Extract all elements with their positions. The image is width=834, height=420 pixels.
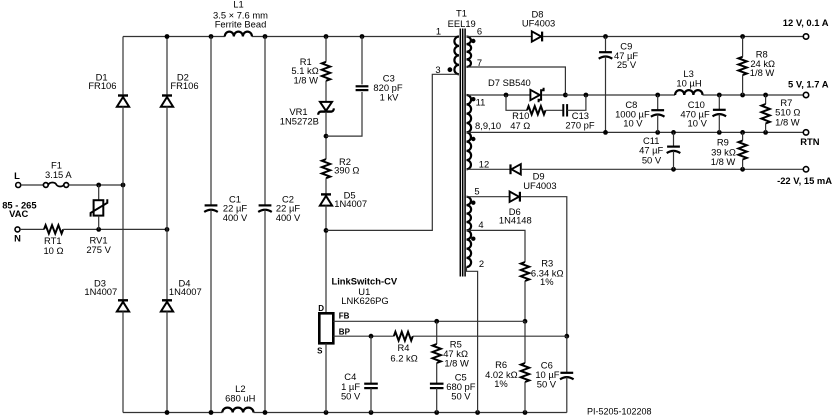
svg-text:L1: L1 — [233, 0, 243, 9]
svg-text:11: 11 — [476, 97, 486, 108]
junction C3 return — [324, 134, 329, 139]
wire pin2 down — [467, 267, 478, 413]
transformer T1 primary winding — [454, 37, 459, 75]
svg-text:5 V, 1.7 A: 5 V, 1.7 A — [788, 79, 829, 90]
junction RV1 bottom — [96, 227, 101, 232]
wire C9 top — [605, 37, 607, 53]
junction L-D1 column — [121, 183, 126, 188]
wire D7 to rail — [542, 94, 565, 96]
zener VR1 — [320, 102, 332, 111]
junction bottom rail U1 S — [324, 410, 329, 415]
svg-text:FR106: FR106 — [170, 80, 198, 91]
svg-text:1/8 W: 1/8 W — [444, 358, 469, 369]
wire C11 top — [673, 132, 675, 146]
junction bottom rail C5 — [434, 410, 439, 415]
svg-text:10 V: 10 V — [623, 118, 643, 129]
svg-text:6: 6 — [477, 26, 482, 37]
wire VR1 to junction — [325, 112, 327, 159]
junction pin3 return — [324, 228, 329, 233]
junction bottom rail C2 — [263, 410, 268, 415]
svg-text:47 Ω: 47 Ω — [510, 120, 530, 131]
transformer T1 core — [459, 29, 461, 277]
junction -22V R9 — [740, 167, 745, 172]
wire C13 to riser — [567, 95, 586, 110]
svg-text:6.2 kΩ: 6.2 kΩ — [390, 353, 417, 364]
wire R9 bottom — [742, 160, 744, 170]
svg-text:LinkSwitch-CV: LinkSwitch-CV — [331, 276, 397, 287]
svg-text:RTN: RTN — [800, 136, 819, 147]
polarity dot winding 8910-12 — [471, 137, 475, 141]
wire R6 bottom — [524, 382, 526, 413]
wire R9 top — [742, 132, 744, 140]
wire C1 bottom — [210, 210, 212, 413]
wire R1 to VR1 — [325, 81, 327, 103]
wire R1 top — [325, 37, 327, 62]
wire C10 top — [718, 95, 720, 110]
inductor L3 — [675, 90, 702, 95]
wire 12V rail — [543, 36, 803, 38]
wire R5 top — [436, 321, 438, 344]
wire -22V rail — [521, 168, 803, 170]
diode D3 — [118, 299, 128, 301]
wire R6 top — [524, 321, 526, 363]
diode D8 — [532, 31, 541, 41]
transformer T1 winding 11-8910 — [467, 95, 472, 132]
svg-text:25 V: 25 V — [617, 59, 637, 70]
svg-text:4: 4 — [478, 219, 483, 230]
svg-text:FB: FB — [339, 311, 350, 320]
junction R7 top — [763, 93, 768, 98]
wire D2 column — [166, 37, 168, 95]
svg-text:1N4007: 1N4007 — [169, 286, 202, 297]
junction RTN C8 bottom — [655, 130, 660, 135]
wire C8 top — [657, 95, 659, 110]
resistor R2 — [322, 159, 330, 178]
capacitor C8 — [651, 109, 664, 111]
wire R7 top — [765, 95, 767, 104]
inductor L2 — [222, 408, 253, 413]
wire fuse to D1 column — [69, 184, 123, 186]
wire C2 top — [264, 37, 266, 206]
svg-text:1/8 W: 1/8 W — [775, 116, 800, 127]
svg-text:1/8 W: 1/8 W — [750, 67, 775, 78]
svg-text:S: S — [317, 347, 323, 356]
junction FB R3 — [523, 319, 528, 324]
svg-text:D7 SB540: D7 SB540 — [488, 77, 531, 88]
svg-text:390 Ω: 390 Ω — [334, 165, 359, 176]
wire BP to R4 — [333, 335, 394, 337]
wire C10 bottom — [718, 114, 720, 132]
junction 12V R8 — [740, 34, 745, 39]
svg-text:T1: T1 — [456, 8, 467, 19]
junction snubber left — [504, 93, 509, 98]
svg-text:1N4007: 1N4007 — [84, 286, 117, 297]
wire pin7 — [467, 67, 566, 95]
resistor R7 — [761, 104, 769, 124]
capacitor C6 — [560, 372, 573, 374]
polarity dot winding 11 — [471, 97, 475, 101]
wire C2 bottom — [264, 210, 266, 413]
wire C4 top — [370, 336, 372, 384]
svg-text:400 V: 400 V — [276, 212, 301, 223]
wire C11 bottom — [673, 151, 675, 169]
svg-text:Ferrite Bead: Ferrite Bead — [215, 19, 267, 30]
fuse F1 — [43, 183, 48, 188]
wire top rail right — [252, 36, 459, 38]
wire D1 column — [122, 37, 124, 95]
wire pin3 — [326, 74, 459, 230]
capacitor C9 — [599, 51, 612, 53]
inductor L1 — [225, 32, 252, 37]
wire C6 bottom — [566, 377, 568, 412]
junction RTN C11 top — [671, 130, 676, 135]
junction C13 riser — [584, 93, 589, 98]
svg-text:50 V: 50 V — [341, 390, 361, 401]
junction RTN R9 top — [740, 130, 745, 135]
svg-text:50 V: 50 V — [537, 378, 557, 389]
svg-text:10 Ω: 10 Ω — [43, 245, 63, 256]
diode D9 — [511, 164, 520, 174]
resistor R10 — [527, 106, 546, 114]
capacitor C11 — [667, 146, 680, 148]
terminal L — [16, 183, 21, 188]
capacitor C4 — [364, 383, 378, 385]
resistor R1 — [322, 62, 330, 81]
wire RV1 bottom lead — [98, 216, 100, 230]
junction top rail D2 — [165, 34, 170, 39]
junction top rail C2 — [263, 34, 268, 39]
schottky diode D7 — [530, 90, 539, 100]
svg-text:LNK626PG: LNK626PG — [341, 295, 388, 306]
wire pin12 to D9 — [467, 168, 510, 170]
wire 5V rail b — [703, 94, 804, 96]
wire D1 to D3 — [122, 106, 124, 299]
svg-text:270 pF: 270 pF — [565, 119, 594, 130]
wire C8 bottom — [657, 115, 659, 133]
IC U1 body — [319, 313, 333, 343]
wire FB — [333, 320, 525, 322]
terminal -22V — [803, 167, 808, 172]
capacitor C1 — [205, 204, 218, 206]
wire U1 source — [325, 343, 327, 412]
svg-text:L: L — [14, 170, 20, 181]
capacitor C10 — [713, 109, 726, 111]
svg-text:BP: BP — [339, 327, 351, 336]
svg-text:N: N — [14, 232, 21, 243]
capacitor C2 — [259, 204, 272, 206]
svg-text:1/8 W: 1/8 W — [711, 156, 736, 167]
terminal 5V — [803, 92, 808, 97]
svg-text:D: D — [318, 304, 324, 313]
wire D3 to bottom rail — [122, 311, 124, 412]
junction RV1 top — [96, 183, 101, 188]
svg-text:275 V: 275 V — [86, 244, 111, 255]
svg-text:1 kV: 1 kV — [380, 92, 400, 103]
svg-text:10 V: 10 V — [688, 118, 708, 129]
polarity dot winding 4-2 — [471, 237, 475, 241]
wire D6 to C6 column — [521, 197, 567, 337]
junction BP C6 — [564, 334, 569, 339]
svg-text:EEL19: EEL19 — [448, 18, 476, 29]
junction RTN C10 bottom — [717, 130, 722, 135]
wire R10 to C13 — [546, 109, 564, 111]
diode D4 — [162, 299, 172, 301]
junction RTN R7 bottom — [763, 130, 768, 135]
wire RV1 top lead — [98, 185, 100, 200]
junction C10 top — [717, 93, 722, 98]
transformer T1 winding 6-7 — [467, 37, 472, 68]
polarity dot winding 5-4 — [471, 201, 475, 205]
svg-text:50 V: 50 V — [642, 154, 662, 165]
svg-text:12 V, 0.1 A: 12 V, 0.1 A — [783, 17, 829, 28]
resistor R9 — [738, 141, 746, 160]
svg-text:680 uH: 680 uH — [225, 393, 255, 404]
svg-text:2: 2 — [479, 258, 484, 269]
wire C4 bottom — [370, 388, 372, 412]
svg-text:1N5272B: 1N5272B — [280, 116, 319, 127]
wire D4 to bottom rail — [166, 311, 168, 412]
wire RTN rail — [467, 131, 804, 133]
junction bottom rail pin2 — [475, 410, 480, 415]
capacitor C13 — [562, 104, 564, 116]
junction BP C4 — [369, 334, 374, 339]
diode D5 — [321, 193, 331, 195]
junction bottom rail D2 — [165, 410, 170, 415]
resistor R6 — [521, 363, 529, 382]
wire N to RT1 — [20, 228, 44, 230]
svg-text:R4: R4 — [398, 342, 410, 353]
svg-text:1/8 W: 1/8 W — [293, 74, 318, 85]
wire R3 to FB — [524, 281, 526, 321]
svg-text:12: 12 — [479, 158, 489, 169]
junction C8 top — [655, 93, 660, 98]
svg-text:1N4148: 1N4148 — [499, 214, 532, 225]
wire snubber left — [506, 95, 527, 110]
wire C5 bottom — [436, 388, 438, 412]
junction top rail R1 — [324, 34, 329, 39]
junction RTN C9 bottom — [603, 130, 608, 135]
svg-text:400 V: 400 V — [223, 212, 248, 223]
svg-text:3.15 A: 3.15 A — [45, 169, 72, 180]
wire pin6 to D8 — [467, 36, 532, 38]
wire R8 bottom — [742, 75, 744, 95]
transformer T1 winding 4-2 — [467, 230, 472, 267]
junction top rail C3 — [360, 34, 365, 39]
capacitor C3 — [356, 85, 369, 87]
wire bottom rail left — [123, 412, 222, 414]
svg-text:PI-5205-102208: PI-5205-102208 — [587, 406, 652, 416]
resistor R5 — [433, 344, 441, 363]
svg-text:1: 1 — [436, 26, 441, 37]
svg-text:UF4003: UF4003 — [522, 17, 555, 28]
junction top rail C1 — [209, 34, 214, 39]
wire C3 top — [361, 37, 363, 85]
wire C9 bottom — [605, 57, 607, 133]
terminal N — [15, 227, 20, 232]
thermistor RT1 — [44, 225, 63, 233]
junction pin7 5V — [563, 93, 568, 98]
capacitor C5 — [430, 383, 444, 385]
wire C6 top — [566, 336, 568, 373]
wire C3 bottom — [326, 92, 362, 136]
diode D1 — [118, 94, 128, 96]
junction bottom rail C1 — [209, 410, 214, 415]
transformer T1 winding 5-4 — [467, 197, 472, 231]
svg-text:50 V: 50 V — [451, 390, 471, 401]
junction bottom rail C4 — [369, 410, 374, 415]
junction N-D2 column — [165, 227, 170, 232]
svg-text:FR106: FR106 — [88, 80, 116, 91]
varistor RV1 — [94, 200, 104, 215]
terminal RTN — [803, 130, 808, 135]
resistor R4 — [394, 332, 413, 341]
polarity dot primary — [448, 67, 453, 72]
wire RT1 to D2 column — [63, 228, 167, 230]
wire R5 to C5 — [436, 363, 438, 384]
wire pin11 to D7 — [467, 94, 531, 96]
wire D2 to D4 — [166, 106, 168, 299]
wire D5 to U1 — [325, 205, 327, 313]
wire R7 bottom — [765, 124, 767, 133]
junction FB R5 — [434, 319, 439, 324]
wire pin5 to D6 — [467, 196, 510, 198]
diode D6 — [510, 192, 519, 202]
wire 5V rail a — [565, 94, 675, 96]
svg-text:1%: 1% — [540, 276, 554, 287]
resistor R8 — [738, 57, 746, 75]
junction 12V C9 — [603, 34, 608, 39]
svg-text:VAC: VAC — [9, 208, 28, 219]
svg-text:1N4007: 1N4007 — [334, 198, 367, 209]
svg-text:5: 5 — [474, 186, 479, 197]
wire R2 to D5 — [325, 178, 327, 194]
svg-text:8,9,10: 8,9,10 — [475, 120, 501, 131]
wire top rail left — [123, 36, 225, 38]
svg-text:1%: 1% — [494, 378, 508, 389]
wire bottom rail right — [254, 412, 567, 414]
wire R8 top — [742, 37, 744, 57]
junction R8 bottom — [740, 93, 745, 98]
svg-text:-22 V, 15 mA: -22 V, 15 mA — [777, 175, 832, 186]
svg-text:3: 3 — [435, 64, 440, 75]
wire C1 top — [210, 37, 212, 206]
wire L to fuse — [21, 184, 44, 186]
wire R4 to C6 column — [413, 335, 567, 337]
transformer T1 winding 8910-12 — [467, 132, 472, 169]
polarity dot winding 6-7 — [471, 39, 475, 43]
diode D2 — [162, 94, 172, 96]
junction bottom rail R6 — [523, 410, 528, 415]
terminal 12V — [803, 34, 808, 39]
svg-text:7: 7 — [477, 57, 482, 68]
resistor R3 — [521, 262, 529, 281]
svg-text:UF4003: UF4003 — [523, 180, 556, 191]
svg-text:10 µH: 10 µH — [676, 78, 701, 89]
wire pin4 to R3 — [467, 230, 526, 262]
junction -22V C11 — [671, 167, 676, 172]
